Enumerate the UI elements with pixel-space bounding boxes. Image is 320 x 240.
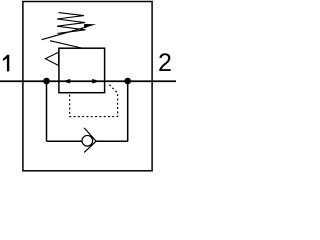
wire: bypass left vertical (46, 81, 48, 141)
spring (adjustable) (57, 13, 86, 34)
wire: bypass bottom right horizontal (96, 140, 128, 142)
junction node right (124, 78, 131, 85)
enclosure box (23, 2, 152, 171)
wire: bypass right vertical (127, 81, 129, 141)
check valve seat (84, 128, 96, 152)
pilot line (dashed) from output to diaphragm (70, 85, 118, 117)
check valve ball (82, 135, 93, 146)
port label 2 (158, 51, 172, 76)
junction node left (43, 78, 50, 85)
adjustment arrow head (84, 24, 96, 28)
flow arrow left (relief direction) (63, 79, 70, 84)
adjustment arrow line (42, 27, 87, 40)
flow arrow right (flow direction) (92, 79, 100, 84)
wire: main flow line port 1 to port 2 (0, 80, 176, 82)
wire: bypass bottom left horizontal (47, 140, 83, 142)
spring last coil to body (50, 41, 82, 48)
port label 1 (drawn) (3, 55, 9, 72)
valve body U1 (59, 48, 105, 92)
vent triangle (exhaust) (45, 52, 58, 65)
